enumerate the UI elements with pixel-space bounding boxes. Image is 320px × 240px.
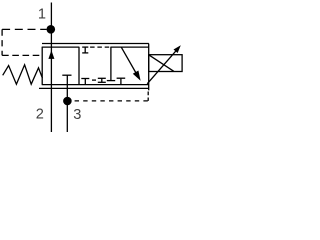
valve body left edge [41,47,43,85]
solenoid slash [149,55,174,71]
solenoid U box [149,55,182,72]
valve body bottom edge [42,84,149,86]
wire port 1/2 vertical line [50,3,52,133]
spring (left actuator) [3,65,43,84]
wire drain dashed vertical [147,92,149,101]
valve body top edge dashed middle [90,46,110,48]
blocked port T cap (port 3, left square) [62,74,71,76]
valve body top edge solid right [110,46,148,48]
blocked port I-beam top cap upper [82,46,88,48]
blocked port T2 cap [81,78,89,80]
blocked port I-beam bottom cap lower [98,81,106,83]
proportional arrow through solenoid [147,51,176,84]
wire pilot dashed bottom horizontal [2,54,42,56]
valve body inner edge (left square right side) [78,47,80,85]
svg-text:2: 2 [36,106,44,122]
blocked port T5 stem [120,79,122,85]
valve body top edge solid left [42,46,80,48]
blocked port I-beam bottom stem [101,78,103,82]
blocked port I-beam top (dashed square, port 1) stem [84,47,86,53]
dash segment bottom dashed edge [92,79,96,81]
arrow flow path up (left square) [48,50,54,59]
svg-text:3: 3 [73,107,81,123]
blocked port I-beam bottom cap upper [98,77,106,79]
svg-text:1: 1 [38,6,46,22]
arrow flow path diagonal (right square) [121,47,136,73]
blocked port T2 stem [84,79,86,85]
blocked port T5 cap [117,77,126,79]
wire bottom port rail [39,87,149,89]
wire top port rail [42,43,149,45]
blocked port T4 cap [107,80,115,82]
wire drain dashed horizontal [75,100,149,102]
blocked port T4 long stem [110,47,112,80]
node junction dot port 1 [47,25,56,34]
wire pilot dashed top horizontal [2,28,47,30]
valve body right edge [148,44,150,91]
node junction dot port 3 [63,97,72,106]
wire pilot dashed left vertical [1,29,3,55]
wire port 3 vertical line [66,75,68,132]
blocked port I-beam top cap lower [82,52,88,54]
